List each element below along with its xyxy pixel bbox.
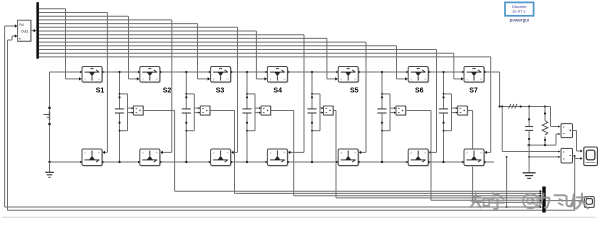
svg-text:m: m (227, 78, 229, 81)
svg-text:S3: S3 (216, 88, 225, 95)
svg-text:powergui: powergui (510, 17, 529, 23)
svg-text:m: m (354, 152, 356, 155)
svg-text:m: m (480, 78, 482, 81)
svg-text:m: m (424, 78, 426, 81)
svg-text:S6: S6 (415, 88, 424, 95)
svg-text:S5: S5 (350, 88, 359, 95)
svg-text:S4: S4 (273, 88, 282, 95)
svg-text:m: m (98, 152, 100, 155)
svg-text:S2: S2 (163, 88, 172, 95)
svg-text:Out1: Out1 (21, 30, 28, 34)
svg-text:S1: S1 (96, 88, 105, 95)
svg-text:m: m (283, 78, 285, 81)
svg-text:Pul: Pul (19, 23, 24, 27)
svg-text:m: m (354, 78, 356, 81)
svg-text:in: in (19, 36, 22, 40)
svg-text:m: m (424, 152, 426, 155)
svg-text:m: m (156, 152, 158, 155)
svg-text:m: m (480, 152, 482, 155)
svg-text:m: m (156, 78, 158, 81)
svg-text:m: m (283, 152, 285, 155)
svg-text:1e-07 s.: 1e-07 s. (512, 9, 526, 14)
svg-text:S7: S7 (469, 88, 478, 95)
svg-text:m: m (98, 78, 100, 81)
svg-text:m: m (227, 152, 229, 155)
